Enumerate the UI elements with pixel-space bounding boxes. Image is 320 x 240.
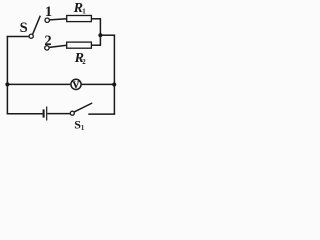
wire: inner right vertical joining R1 and R2 [99, 18, 101, 46]
wire: voltmeter to right vertical [82, 83, 115, 85]
node junction dot on inner vertical [98, 33, 102, 37]
svg-text:2: 2 [82, 59, 86, 66]
wire: battery to switch S1 [47, 113, 70, 115]
wire: R1 right to inner vertical [91, 18, 101, 20]
svg-text:1: 1 [45, 4, 52, 20]
svg-text:1: 1 [81, 125, 85, 132]
switch S lever blade [33, 16, 41, 35]
battery negative plate (short thick) [43, 109, 45, 117]
wire: outer right vertical [113, 35, 115, 115]
wire: bottom left segment [7, 113, 43, 115]
contact 2 terminal circle [45, 46, 49, 50]
wire: junction to outer right vertical [100, 34, 115, 36]
svg-text:V: V [73, 81, 80, 91]
voltmeter V circle [71, 79, 81, 89]
battery positive plate (long thin) [46, 107, 47, 121]
switch S1 pivot circle [70, 111, 74, 115]
switch S1 lever blade [74, 103, 92, 112]
svg-text:S: S [20, 20, 28, 36]
node junction dot on right vertical [112, 82, 116, 86]
wire: top-left stub to switch S pivot [7, 36, 30, 38]
wire: left vertical [6, 36, 8, 115]
background [0, 0, 122, 134]
wire: left dot to voltmeter [7, 83, 70, 85]
switch S pivot circle [29, 34, 33, 38]
node junction dot on left vertical [5, 82, 9, 86]
wire: bottom right segment [88, 113, 115, 115]
contact 1 terminal circle [45, 18, 49, 22]
wire: R2 right to inner vertical [91, 44, 101, 46]
wire: contact 2 to R2 [49, 45, 67, 47]
resistor R2 [67, 42, 92, 48]
svg-text:1: 1 [82, 9, 86, 16]
resistor R1 [67, 16, 92, 22]
wire: contact 1 to R1 [50, 19, 67, 20]
